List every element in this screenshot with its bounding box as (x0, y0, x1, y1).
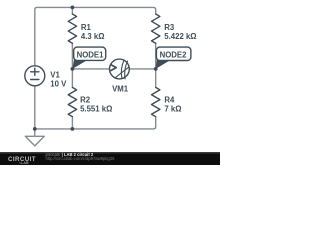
svg-text:7 kΩ: 7 kΩ (164, 105, 181, 114)
svg-text:VM1: VM1 (112, 85, 129, 94)
svg-text:R1: R1 (81, 23, 92, 32)
svg-text:R4: R4 (164, 95, 175, 104)
svg-text:10 V: 10 V (50, 80, 67, 89)
svg-text:R3: R3 (164, 23, 175, 32)
svg-text:4.3 kΩ: 4.3 kΩ (81, 32, 105, 41)
svg-text:⌁LAB: ⌁LAB (19, 161, 29, 165)
svg-text:http://circuitlab.com/c/dp97aw: http://circuitlab.com/c/dp97aw8pkg35 (46, 156, 116, 161)
svg-text:R2: R2 (80, 95, 91, 104)
svg-text:NODE1: NODE1 (77, 50, 105, 59)
svg-text:5.551 kΩ: 5.551 kΩ (80, 105, 112, 114)
svg-text:V1: V1 (50, 71, 60, 80)
svg-text:NODE2: NODE2 (160, 51, 188, 60)
svg-text:5.422 kΩ: 5.422 kΩ (164, 32, 196, 41)
